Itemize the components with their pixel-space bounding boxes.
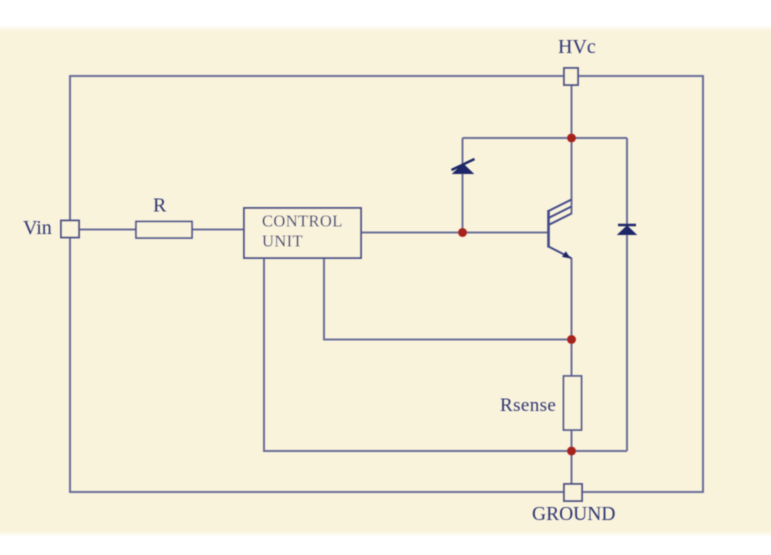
node D junction (567, 335, 576, 344)
terminal HVc (564, 68, 578, 85)
node E junction (567, 447, 576, 456)
wire Vin to R (79, 229, 136, 231)
wire control unit output to node B (361, 232, 463, 234)
control unit U1 (244, 208, 361, 258)
label CONTROL UNIT (262, 212, 343, 251)
wire Rsense bottom to ground terminal (571, 430, 573, 484)
emitter arrow (562, 251, 571, 258)
terminal Vin (61, 221, 79, 238)
base bar (547, 210, 550, 248)
wire top horizontal at node C level (463, 137, 628, 139)
svg-text:R: R (153, 195, 167, 217)
terminal GROUND (564, 484, 582, 501)
wire right diode branch (626, 138, 628, 451)
collector stripes (549, 200, 572, 226)
diode D2 (618, 225, 636, 235)
svg-text:CONTROL: CONTROL (262, 212, 343, 231)
node B junction (458, 228, 467, 237)
resistor R (136, 222, 192, 239)
wire R to control unit (192, 229, 244, 231)
wire node B to transistor base (463, 232, 548, 234)
svg-text:GROUND: GROUND (532, 504, 615, 525)
wire collector vertical (571, 138, 573, 214)
svg-text:UNIT: UNIT (262, 232, 303, 251)
wire control unit pin2 down (324, 258, 572, 340)
wire control unit pin1 sense loop (264, 258, 627, 451)
wire emitter down to node D (571, 258, 573, 376)
emitter lead (549, 247, 572, 259)
wire HVc terminal down to node C (571, 85, 573, 138)
resistor Rsense (564, 376, 582, 430)
svg-text:Rsense: Rsense (500, 395, 556, 416)
wire zener branch vertical (462, 138, 464, 233)
transistor Q1 (549, 200, 572, 259)
svg-text:HVc: HVc (558, 36, 596, 58)
svg-text:Vin: Vin (23, 217, 52, 239)
node C junction (567, 134, 576, 143)
wire outer loop (70, 76, 703, 492)
zener diode D1 (452, 159, 475, 174)
